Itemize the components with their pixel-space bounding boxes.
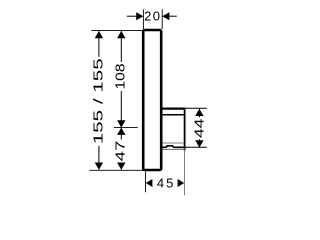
arrow 108 top	[117, 31, 125, 38]
ext line 45 right	[184, 149, 186, 196]
arrow 155 top	[95, 31, 103, 38]
label 108	[113, 62, 128, 91]
dim 20 left tail	[127, 15, 137, 17]
ext line 20 left	[142, 9, 144, 29]
svg-text:155 / 155: 155 / 155	[90, 58, 105, 144]
extension line 44 bottom	[186, 146, 207, 148]
top reference line	[91, 29, 143, 31]
extension line 44 top	[186, 107, 207, 109]
dim line 155	[98, 31, 100, 169]
ext line 45 left	[145, 172, 147, 193]
box inner gray line lower	[163, 148, 184, 150]
dim line 47	[120, 128, 122, 170]
ext line 20 right	[161, 9, 163, 29]
dim 20 right tail	[169, 15, 176, 17]
label 44	[191, 117, 206, 139]
box inner top line	[163, 114, 184, 116]
arrow 155 bottom	[95, 163, 103, 170]
arrow 20 left	[136, 12, 143, 20]
dim line 108	[120, 31, 122, 127]
svg-text:20: 20	[144, 9, 161, 24]
svg-text:45: 45	[157, 175, 175, 190]
label 47	[112, 140, 127, 163]
arrow 44 top	[195, 109, 203, 116]
arrow 47 bottom	[117, 163, 125, 170]
box cartridge housing top edge	[162, 107, 186, 109]
box right edge	[184, 108, 186, 151]
arrow 47 top junction	[117, 128, 125, 135]
arrow 108 bottom junction	[117, 120, 125, 127]
svg-text:108: 108	[113, 64, 128, 90]
box bottom edge with bump	[162, 146, 186, 148]
bottom baseline	[89, 169, 146, 171]
arrow 45 right	[178, 179, 185, 187]
arrow 45 left	[146, 179, 153, 187]
box inner gray line upper	[163, 142, 184, 144]
svg-text:44: 44	[191, 118, 206, 138]
junction tick	[114, 127, 138, 129]
dim line 44	[199, 109, 201, 147]
arrow 44 bottom	[195, 140, 203, 147]
arrow 20 right	[162, 12, 169, 20]
label 155/155	[90, 57, 105, 146]
plate (escutcheon side view)	[143, 30, 161, 170]
svg-text:47: 47	[112, 141, 127, 162]
